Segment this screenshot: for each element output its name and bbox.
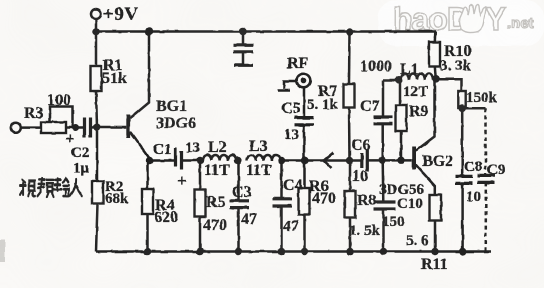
wire C5 up — [303, 125, 306, 160]
dashed wire C9 lower — [485, 182, 488, 251]
paper mottle — [0, 0, 1, 1]
main signal line left — [149, 159, 175, 162]
ground rail — [96, 250, 491, 253]
wire R3 to C2 — [66, 126, 84, 129]
wire node to C9 — [462, 107, 485, 110]
capacitor C4 — [273, 199, 293, 206]
wire R4 to ground — [146, 214, 149, 252]
ground nodes — [144, 248, 151, 255]
BG2 emitter — [416, 165, 435, 196]
logo hand — [460, 5, 487, 33]
bypass loop over R3 — [50, 107, 73, 128]
wire C6 to node — [367, 159, 412, 162]
wire C1 to L2 — [182, 159, 204, 162]
wire C2 to base node — [91, 126, 98, 129]
wire R2 to ground rail — [96, 204, 98, 252]
capacitor C3 — [230, 201, 250, 208]
resistor R7 — [344, 84, 355, 108]
node C5/R6 — [301, 157, 308, 164]
scan smudge left edge — [0, 240, 5, 262]
node N1 wire — [383, 79, 401, 82]
dashed wire C9 upper — [484, 108, 487, 175]
wire R6 to ground — [303, 215, 306, 252]
capacitor C1 — [176, 148, 182, 170]
resistor R6 — [299, 188, 310, 215]
node base of BG1 — [93, 124, 100, 131]
inductor L2 — [203, 155, 236, 161]
wire R7 lower — [348, 108, 351, 161]
resistor R11 — [430, 195, 442, 220]
resistor R1 — [91, 66, 102, 91]
wire C8 to ground — [461, 183, 464, 251]
node R3 loop — [72, 124, 79, 131]
capacitor C5 — [295, 118, 314, 125]
wire 150k to C8 — [461, 108, 464, 176]
node 150k/C8/C9 — [459, 105, 466, 112]
wire R6 — [303, 161, 306, 189]
wire R8 to ground — [349, 218, 352, 252]
logo haoDIY.net — [393, 1, 534, 37]
capacitor C7 — [374, 117, 393, 124]
transistor BG1 base bar — [126, 115, 130, 138]
wire C10 to ground — [382, 209, 385, 252]
wire R10 to node — [435, 67, 436, 79]
node rail-R7 — [346, 28, 354, 36]
wire C4 to ground — [280, 206, 283, 252]
wire R4 — [146, 161, 149, 190]
ground bar of bypass capacitor — [234, 64, 253, 67]
BG1 collector — [130, 32, 149, 119]
wire R11 to ground — [434, 220, 437, 252]
resistor 150k — [458, 91, 465, 108]
wire R1 to base node — [96, 91, 97, 127]
node R7/R8/C6 — [346, 157, 353, 164]
top supply rail — [96, 30, 436, 33]
wire C3 to ground — [237, 208, 240, 252]
wire C4 — [280, 161, 283, 199]
inductor L3 — [247, 155, 280, 161]
wire C7 lower — [381, 125, 384, 161]
+9V supply terminal — [91, 9, 101, 19]
main line with arrow — [305, 159, 362, 162]
wire R7 upper — [348, 32, 351, 85]
wire R5 — [199, 161, 202, 190]
BG2 collector — [416, 79, 435, 152]
wire input to R3 — [21, 126, 41, 129]
wire C3 — [237, 161, 240, 201]
RF shield tab — [278, 81, 298, 91]
capacitor C10 — [374, 202, 396, 209]
node rail-bypass cap — [239, 28, 247, 36]
signal arrow — [324, 153, 334, 169]
RF connector — [297, 74, 311, 88]
wire C10 — [381, 160, 384, 202]
resistor R4 — [142, 189, 153, 214]
node L3/C4 — [278, 157, 285, 164]
wire rail to R1 — [95, 32, 98, 67]
wire R5 to ground — [199, 217, 202, 252]
resistor R3 — [41, 122, 66, 133]
wire base node to R2 — [96, 127, 99, 181]
node L2/C3/L3 — [234, 157, 241, 164]
input terminal — [11, 123, 21, 133]
node rail-R1 — [92, 28, 100, 36]
resistor R2 — [92, 181, 103, 204]
resistor R9 — [396, 105, 407, 131]
node rail-BG1 collector — [145, 28, 153, 36]
capacitor C9 — [478, 175, 495, 182]
wire collector node to 150k — [437, 79, 462, 91]
resistor R10 — [429, 42, 440, 67]
node C1/R5/L2 — [196, 157, 203, 164]
wire R9 lower — [400, 131, 403, 160]
node R9/base line — [397, 157, 404, 164]
BG1 emitter — [130, 132, 150, 161]
wire C7 upper — [382, 81, 385, 118]
node L1/R10/collector — [432, 75, 440, 83]
capacitor C8 — [456, 176, 473, 183]
视频输入 video input text — [20, 179, 82, 197]
node L1 left — [395, 76, 403, 84]
node C7/C10 — [379, 157, 386, 164]
transistor BG2 base bar — [412, 147, 416, 170]
wire rail to R10 — [434, 32, 437, 43]
wire C5 to RF jack — [303, 87, 306, 118]
capacitor C6 — [362, 150, 368, 172]
inductor L1 — [401, 74, 433, 80]
node emitter/C1/R4 — [146, 157, 153, 164]
wire R9 upper — [399, 80, 402, 105]
resistor R8 — [345, 191, 356, 218]
resistor R5 — [195, 190, 206, 217]
bypass capacitor at rail — [242, 32, 245, 45]
wire L3 to node — [280, 159, 305, 162]
capacitor C2 — [85, 118, 91, 138]
wire base node to BG1 — [97, 126, 126, 129]
wire R8 — [349, 161, 352, 192]
wire terminal to rail — [95, 18, 98, 31]
white halo behind logo — [378, 0, 544, 46]
